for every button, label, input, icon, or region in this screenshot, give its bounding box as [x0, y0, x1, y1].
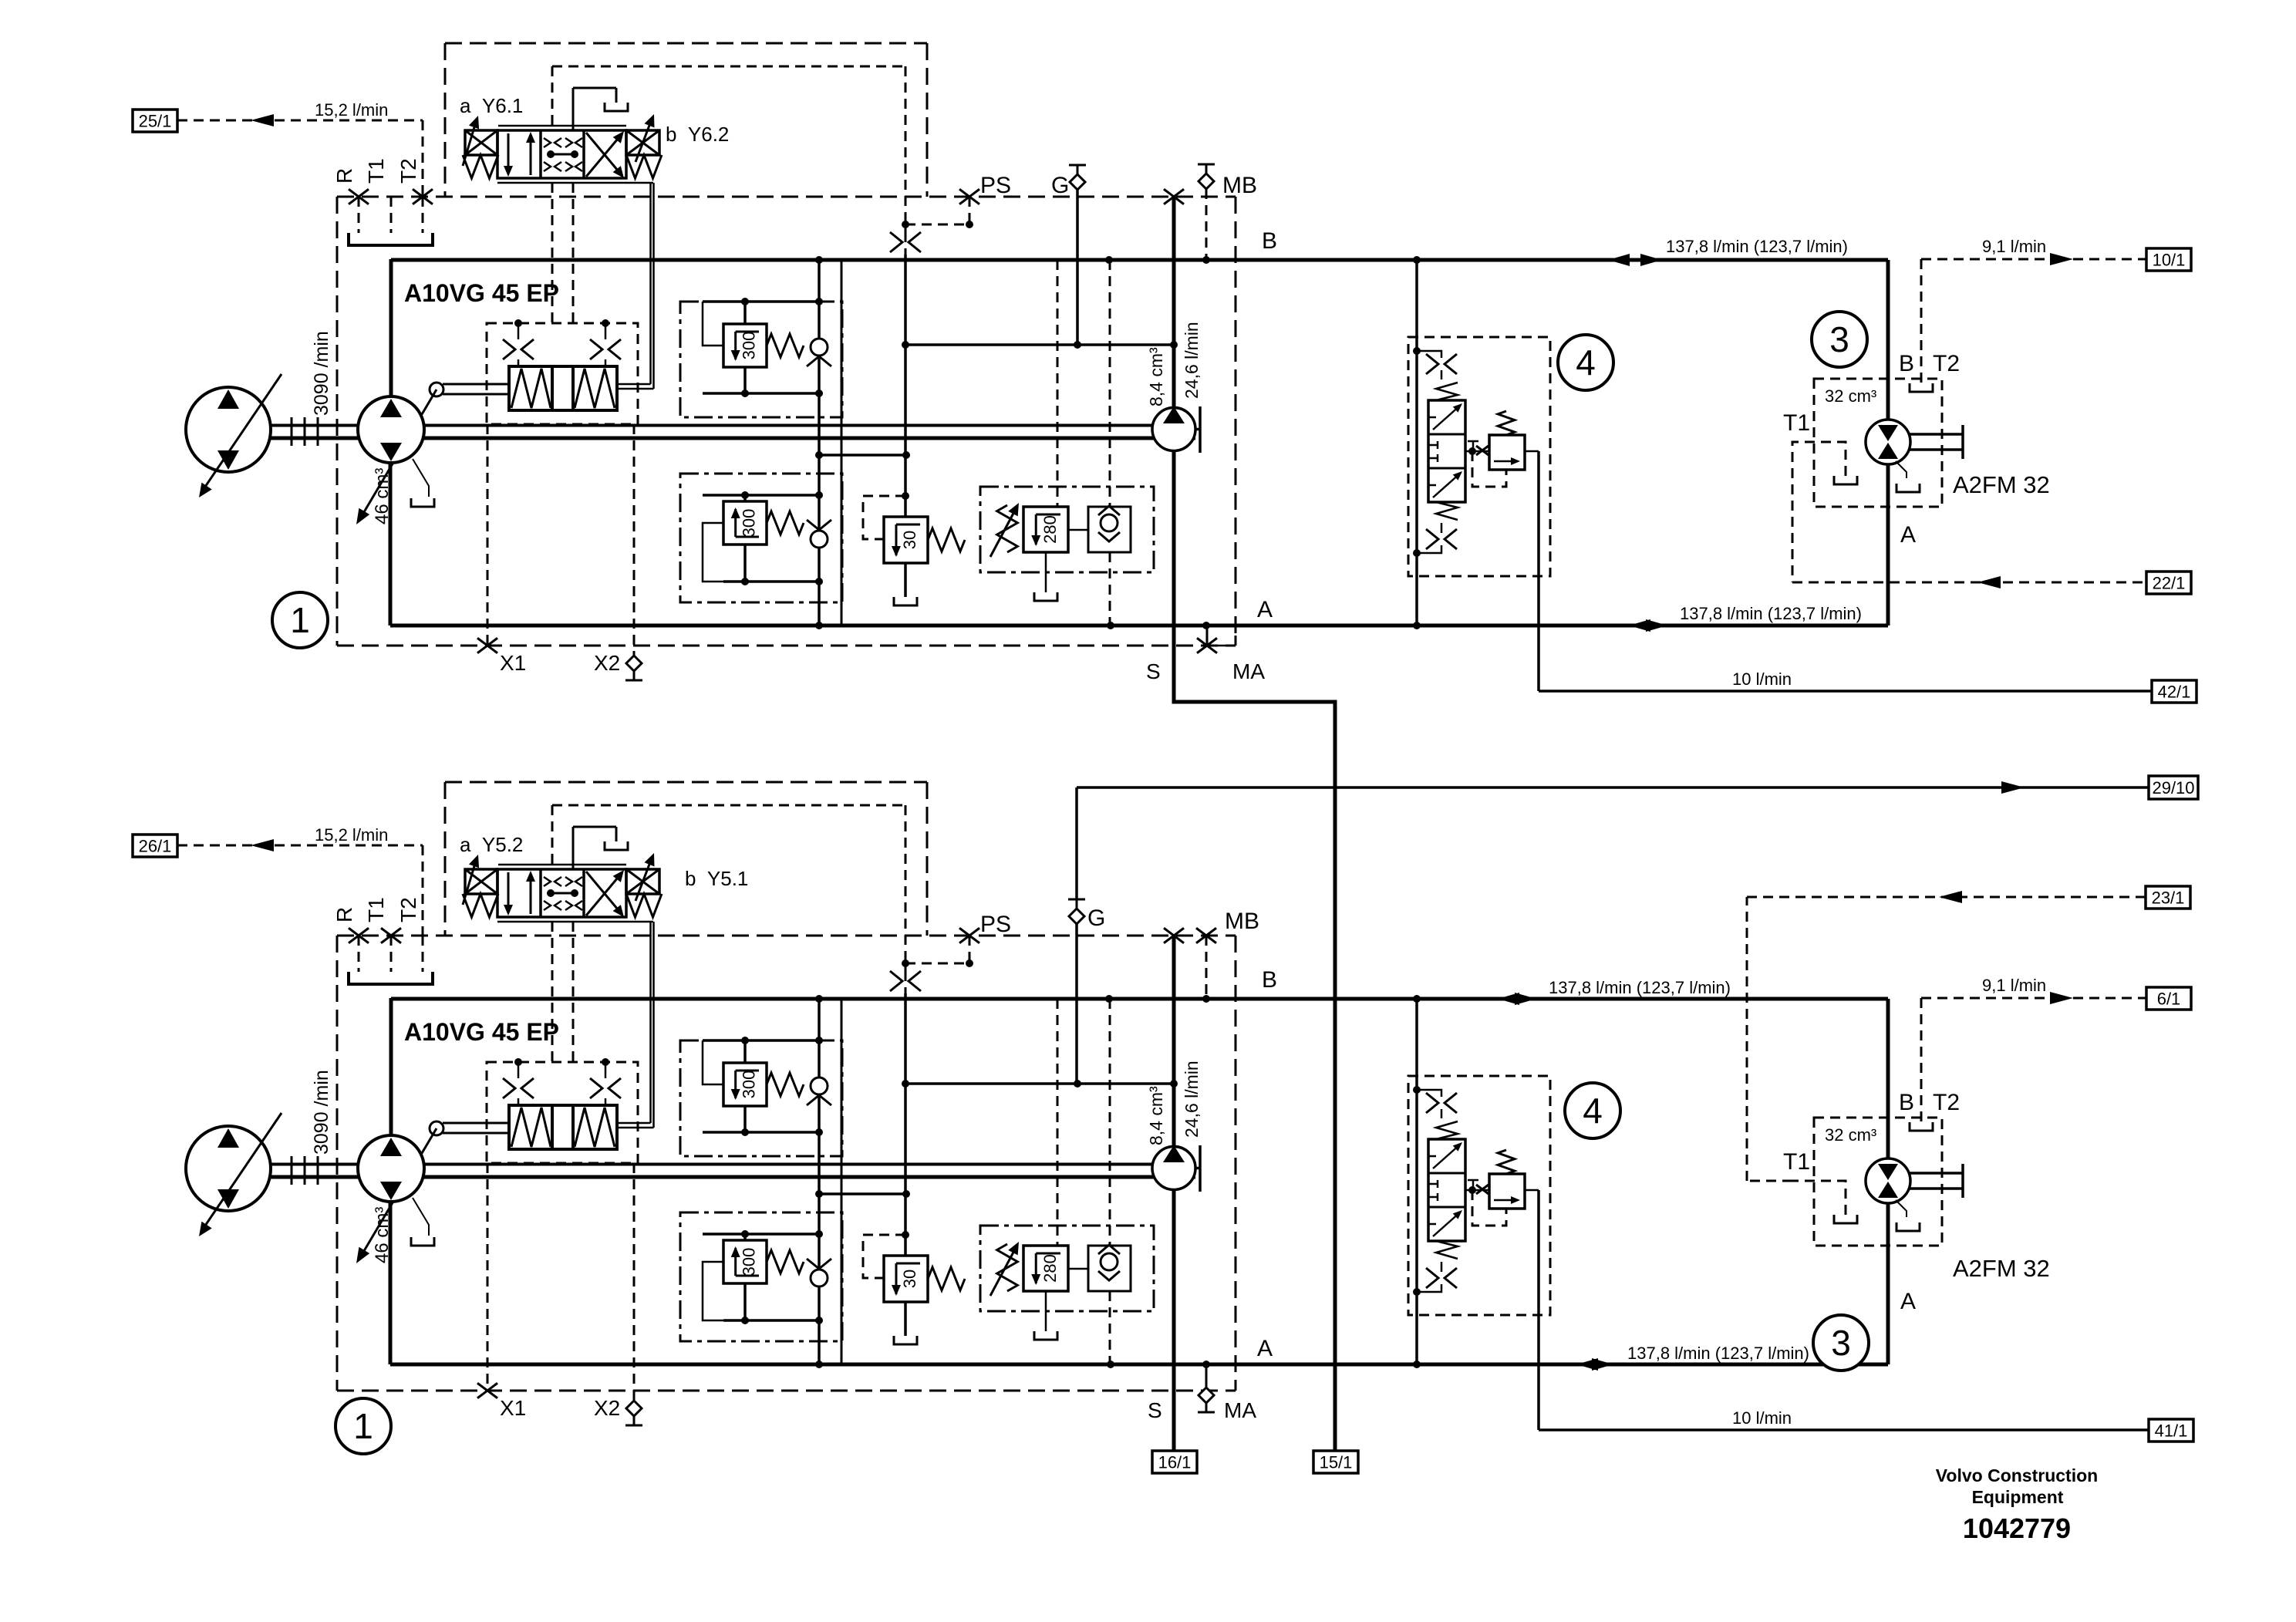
relief valve 280 [1023, 1246, 1068, 1291]
shuttle springs and orifices [1436, 1121, 1458, 1139]
valve outlet double line [649, 922, 652, 1123]
main pump port lines [389, 259, 393, 430]
svg-text:29/10: 29/10 [2152, 778, 2194, 798]
solenoid a arrow [463, 858, 477, 905]
pilot lines valve to control [551, 922, 554, 1062]
pump control pilot box [487, 323, 638, 424]
svg-text:MB: MB [1225, 909, 1259, 934]
valve body 4/3 proportional [497, 869, 626, 917]
motor triangles [1878, 425, 1898, 441]
svg-text:137,8 l/min (123,7 l/min): 137,8 l/min (123,7 l/min) [1666, 237, 1848, 256]
wire 10 l/min to 42/1 [1537, 451, 1540, 691]
B flow arrows [1608, 254, 1630, 266]
svg-text:4: 4 [1576, 342, 1596, 383]
svg-text:S: S [1146, 659, 1161, 683]
charge relief 30 pilot loop [863, 1235, 905, 1278]
svg-text:23/1: 23/1 [2152, 889, 2185, 908]
svg-text:R: R [332, 168, 356, 184]
solenoid b box [626, 130, 659, 155]
servo rod [443, 1122, 509, 1125]
port X1 [487, 1163, 489, 1391]
bottom drive circuit [133, 782, 2193, 1473]
svg-text:A: A [1257, 1336, 1273, 1361]
link 280 to check [1068, 1268, 1088, 1270]
relief pilot loop [1472, 1190, 1506, 1226]
svg-text:X2: X2 [594, 1396, 620, 1420]
svg-text:X1: X1 [500, 651, 526, 675]
shuttle out to relief [1465, 450, 1489, 453]
pump unit boundary box [337, 196, 1236, 198]
solenoid a arrow [463, 120, 477, 166]
pump control pilot box [487, 1062, 638, 1163]
motor supply vertical [1886, 260, 1890, 626]
svg-text:X1: X1 [500, 1396, 526, 1420]
motor T2 pilot to 9,1 line [1921, 997, 2064, 1000]
relief pilot loop [1472, 451, 1506, 487]
valve top rail [498, 125, 626, 127]
svg-text:b Y5.1: b Y5.1 [685, 867, 748, 890]
relief valve 300 [723, 1063, 767, 1106]
shaft coupling hatches [291, 417, 293, 446]
relief 280 adjustable spring [997, 505, 1018, 552]
circled 4 [1565, 1083, 1620, 1138]
charge pressure line [904, 993, 907, 1256]
relief valve 300 [723, 324, 767, 367]
svg-text:3090 /min: 3090 /min [311, 331, 332, 416]
line B to makeup check [1109, 260, 1111, 507]
aux charge pump line [1172, 936, 1176, 1451]
ref box 16/1 [1152, 1451, 1197, 1473]
wire B main line [391, 997, 1888, 1001]
charge supply cross line [905, 343, 1174, 346]
spool center blocked ports [544, 138, 551, 147]
relief 300 pilot loop [703, 1262, 723, 1320]
aux pump shaft cap [1195, 428, 1200, 431]
circled 1 [335, 1398, 391, 1454]
motor A2FM dashed box [1814, 379, 1942, 507]
stroking cylinder springs [511, 1108, 551, 1147]
svg-text:15,2 l/min: 15,2 l/min [315, 100, 388, 120]
stroking cylinder springs [511, 369, 551, 408]
left pump arrow [202, 374, 282, 491]
aux charge pump circle [1152, 1147, 1195, 1190]
svg-text:B: B [1262, 228, 1277, 254]
svg-text:A: A [1900, 1289, 1916, 1314]
relief out drain [1525, 1189, 1539, 1192]
top drive circuit [133, 43, 2197, 1451]
motor case drain leader [1896, 1200, 1907, 1217]
inner pilot dashed routing [552, 66, 905, 68]
svg-text:3090 /min: 3090 /min [311, 1070, 332, 1155]
circled 3 [1812, 312, 1867, 367]
check valve [811, 1077, 828, 1094]
flushing relief valve [1489, 1174, 1525, 1209]
relief 300 pilot loop [703, 523, 723, 582]
ref box 42/1 [2152, 680, 2197, 703]
svg-text:B: B [1262, 967, 1277, 993]
svg-text:a Y6.1: a Y6.1 [460, 94, 523, 117]
svg-text:26/1: 26/1 [139, 837, 172, 856]
relief 300 group box [680, 1212, 842, 1341]
charge relief 30 drain to tank [904, 563, 907, 597]
pump case drain leader [413, 1198, 429, 1236]
solenoid a spring [463, 894, 498, 917]
svg-text:Volvo Construction: Volvo Construction [1936, 1465, 2098, 1485]
svg-text:42/1: 42/1 [2158, 683, 2191, 702]
svg-text:T2: T2 [1933, 1090, 1960, 1115]
svg-text:3: 3 [1831, 1323, 1851, 1363]
valve bottom rail [497, 182, 653, 184]
svg-text:R: R [332, 907, 356, 922]
solenoid b arrow [636, 117, 652, 162]
motor T1 tank [1834, 1215, 1857, 1223]
relief 280 group box [980, 487, 1154, 572]
svg-text:T1: T1 [364, 897, 388, 922]
check valve [811, 339, 828, 356]
relief valve 300 [723, 501, 767, 545]
relief 300 group box [680, 1040, 842, 1156]
circled 3 [1813, 1315, 1869, 1371]
flushing block box [1408, 337, 1550, 576]
drive shaft [270, 1163, 1195, 1166]
ref box 29/10 [2149, 776, 2198, 799]
pilot line to 280 [1057, 260, 1059, 507]
svg-text:MA: MA [1224, 1398, 1256, 1422]
svg-text:A2FM 32: A2FM 32 [1953, 1255, 2050, 1282]
solenoid b spring [626, 155, 662, 178]
solenoid a box [465, 869, 497, 894]
left pump circle [186, 387, 271, 472]
relief 300 spring [767, 511, 804, 534]
svg-text:MB: MB [1222, 173, 1257, 198]
left pump arrow [202, 1113, 282, 1230]
relief 300 bottom bus [723, 580, 819, 583]
wire A main line [390, 1363, 1888, 1367]
flushing block main line [1415, 999, 1418, 1364]
ref box 26/1 [133, 835, 177, 857]
motor triangles [1878, 1164, 1898, 1180]
flushing shuttle valve body [1428, 400, 1465, 502]
relief 300 top bus [703, 1039, 819, 1042]
valve body 4/3 proportional [497, 130, 626, 178]
PS orifice [905, 963, 907, 971]
280 drain to tank [1045, 1291, 1047, 1331]
makeup check valve box [1088, 507, 1131, 552]
svg-text:32 cm³: 32 cm³ [1825, 1125, 1876, 1145]
svg-text:T2: T2 [396, 897, 420, 922]
svg-text:280: 280 [1040, 1254, 1060, 1283]
shuttle top cell diagonal [1433, 1144, 1461, 1168]
servo rod [443, 383, 509, 386]
svg-text:6/1: 6/1 [2157, 990, 2181, 1009]
svg-text:25/1: 25/1 [139, 112, 172, 131]
relief 300 top bus [703, 1233, 819, 1236]
spool cell arrows [507, 133, 510, 174]
motor T2 pilot to 9,1 line [1921, 258, 2064, 261]
relief 300 spring [767, 1250, 804, 1273]
relief 300 top bus [703, 300, 819, 303]
svg-text:A10VG 45 EP: A10VG 45 EP [404, 1018, 559, 1046]
bus cross link [819, 454, 906, 457]
svg-text:10 l/min: 10 l/min [1732, 669, 1792, 689]
svg-text:4: 4 [1583, 1091, 1603, 1131]
pilot orifice left [514, 319, 522, 327]
pilot orifice right [602, 319, 609, 327]
shuttle pilot connections [1413, 1086, 1421, 1094]
T1 drain to 22/1 [1792, 442, 1846, 582]
valve outlet double line [649, 183, 652, 384]
svg-text:a Y5.2: a Y5.2 [460, 833, 523, 856]
svg-text:1042779: 1042779 [1963, 1512, 2071, 1544]
wire S to 16/1 [1172, 1364, 1176, 1451]
makeup check valve box [1088, 1246, 1131, 1291]
svg-text:X2: X2 [594, 651, 620, 675]
svg-text:15,2 l/min: 15,2 l/min [315, 825, 388, 845]
svg-text:137,8 l/min (123,7 l/min): 137,8 l/min (123,7 l/min) [1680, 604, 1862, 623]
aux charge pump line [1172, 197, 1176, 702]
motor supply vertical [1886, 999, 1890, 1364]
ref box 10/1 [2146, 248, 2191, 271]
swashplate arrow [359, 389, 437, 520]
motor shaft [1909, 1172, 1963, 1175]
ref box 22/1 [2146, 572, 2191, 594]
svg-text:MA: MA [1232, 659, 1265, 683]
relief 300 bottom bus [723, 1319, 819, 1322]
pump block right edge [841, 999, 843, 1364]
svg-text:b Y6.2: b Y6.2 [666, 123, 729, 146]
R T1 T2 drain stubs [358, 197, 360, 233]
svg-text:T1: T1 [364, 158, 388, 184]
280 drain to tank [1045, 552, 1047, 592]
svg-text:137,8 l/min (123,7 l/min): 137,8 l/min (123,7 l/min) [1549, 978, 1731, 997]
relief 300 connections [743, 1040, 747, 1063]
check valve [811, 1270, 828, 1286]
svg-text:30: 30 [900, 1270, 919, 1288]
svg-text:41/1: 41/1 [2155, 1421, 2188, 1441]
svg-text:300: 300 [739, 332, 758, 360]
solenoid a box [465, 130, 497, 155]
solenoid b spring [626, 894, 662, 917]
svg-text:A10VG 45 EP: A10VG 45 EP [404, 279, 559, 307]
svg-text:300: 300 [739, 509, 758, 538]
charge relief 30 spring [928, 528, 965, 551]
drive shaft [270, 424, 1195, 427]
shuttle bottom cell diagonal [1433, 1212, 1461, 1236]
charge relief 30 pilot dot [902, 492, 909, 500]
B flow arrows [1498, 993, 1519, 1005]
shuttle mid cell ports [1428, 1183, 1438, 1185]
flushing shuttle valve body [1428, 1139, 1465, 1241]
relief 300 group box [680, 474, 842, 602]
outer pilot dashed routing [444, 43, 447, 197]
circled 1 [272, 592, 328, 648]
shuttle pilot connections [1413, 347, 1421, 355]
svg-text:300: 300 [739, 1248, 758, 1276]
svg-text:300: 300 [739, 1071, 758, 1099]
stroking cylinder body [509, 1105, 617, 1149]
valve pilot drain hook to tank [572, 827, 575, 869]
motor shaft [1909, 433, 1963, 436]
svg-text:30: 30 [900, 531, 919, 549]
relief 280 group box [980, 1226, 1154, 1311]
spool cross arrows [586, 873, 622, 916]
motor A2FM dashed box [1814, 1118, 1942, 1246]
relief out drain [1525, 450, 1539, 453]
shuttle mid cell ports [1428, 444, 1438, 447]
outer pilot dashed routing [444, 782, 447, 936]
svg-text:280: 280 [1040, 515, 1060, 544]
internal bus line [818, 999, 821, 1364]
port X1 [487, 424, 489, 646]
charge relief valve 30 [884, 1256, 928, 1302]
port X2 [633, 424, 636, 656]
wire 15,2 l/min drain [177, 120, 423, 122]
svg-text:PS: PS [980, 912, 1011, 937]
relief 300 spring [767, 1073, 804, 1096]
svg-text:B: B [1899, 1090, 1914, 1115]
wire A main line [390, 624, 1888, 628]
pump case drain leader [413, 459, 429, 497]
svg-text:3: 3 [1829, 319, 1849, 359]
inner pilot dashed routing [552, 804, 905, 807]
pilot line to 280 [1057, 999, 1059, 1246]
aux charge pump circle [1152, 408, 1195, 451]
link 280 to check [1068, 529, 1088, 531]
svg-text:1: 1 [290, 600, 310, 640]
svg-text:A: A [1900, 522, 1916, 548]
drain collector bracket [349, 972, 433, 984]
svg-text:G: G [1087, 905, 1105, 931]
svg-text:9,1 l/min: 9,1 l/min [1982, 976, 2046, 995]
svg-text:8,4 cm³: 8,4 cm³ [1146, 1086, 1166, 1145]
motor T2 drain line [1920, 998, 1923, 1122]
pilot orifice right [602, 1058, 609, 1066]
relief 300 pilot loop [703, 302, 723, 346]
ref box 6/1 [2146, 987, 2191, 1010]
svg-text:24,6 l/min: 24,6 l/min [1182, 1061, 1202, 1138]
stroking cylinder body [509, 366, 617, 410]
svg-text:S: S [1148, 1398, 1162, 1422]
svg-text:15/1: 15/1 [1320, 1453, 1353, 1472]
relief 300 spring [767, 334, 804, 357]
ref box 23/1 [2146, 886, 2190, 909]
svg-text:24,6 l/min: 24,6 l/min [1182, 322, 1202, 399]
charge pressure line [904, 255, 907, 517]
main pump port lines [389, 998, 393, 1168]
charge relief 30 pilot dot [902, 1231, 909, 1239]
ref box 25/1 [133, 110, 177, 132]
charge relief valve 30 [884, 517, 928, 563]
relief 300 bottom bus [703, 392, 819, 395]
flushing block box [1408, 1076, 1550, 1315]
relief 300 bottom bus [703, 1131, 819, 1134]
pump block right edge [841, 260, 843, 626]
relief 280 adjustable spring [997, 1244, 1018, 1291]
svg-text:T2: T2 [1933, 351, 1960, 376]
svg-text:9,1 l/min: 9,1 l/min [1982, 237, 2046, 256]
motor case drain leader [1896, 461, 1907, 478]
internal bus line [818, 260, 821, 626]
relief 300 connections [743, 1234, 747, 1240]
pump unit boundary box [337, 935, 1236, 937]
T1 drain to 23/1 [1792, 1181, 1846, 1215]
wire 15,2 l/min drain [177, 845, 423, 847]
check valve [811, 531, 828, 548]
svg-text:22/1: 22/1 [2153, 574, 2186, 593]
svg-text:1: 1 [353, 1406, 373, 1446]
svg-text:T2: T2 [396, 158, 420, 184]
wire B main line [391, 258, 1888, 262]
pilot orifice left [514, 1058, 522, 1066]
relief 300 connections [743, 302, 747, 324]
flushing block main line [1415, 260, 1418, 626]
svg-text:A2FM 32: A2FM 32 [1953, 471, 2050, 498]
wire S drain to 15/1 [1174, 626, 1335, 1451]
shuttle out to relief [1465, 1189, 1489, 1192]
bus cross link [819, 1192, 906, 1195]
svg-text:G: G [1051, 173, 1069, 198]
drain collector bracket [349, 233, 433, 245]
relief 300 group box [680, 302, 842, 417]
shaft coupling hatches [291, 1156, 293, 1185]
wire 29/10 gauge line [1077, 786, 2149, 789]
left pump circle [186, 1126, 271, 1211]
ref box 41/1 [2149, 1419, 2193, 1442]
relief 300 pilot loop [703, 1040, 723, 1084]
svg-text:PS: PS [980, 173, 1011, 198]
aux pump shaft cap [1195, 1167, 1200, 1170]
main pump circle [358, 396, 424, 463]
flushing relief valve [1489, 435, 1525, 470]
relief 300 connections [743, 495, 747, 501]
PS orifice [905, 224, 907, 232]
shuttle top cell diagonal [1433, 405, 1461, 430]
motor circle [1866, 420, 1910, 464]
svg-text:137,8 l/min (123,7 l/min): 137,8 l/min (123,7 l/min) [1627, 1344, 1809, 1363]
charge supply cross line [905, 1082, 1174, 1085]
shuttle springs and orifices [1436, 383, 1458, 400]
valve pilot drain hook to tank [572, 88, 575, 130]
charge relief 30 pilot loop [863, 496, 905, 539]
relief 300 top bus [703, 494, 819, 497]
svg-text:Equipment: Equipment [1972, 1487, 2064, 1507]
svg-text:A: A [1257, 597, 1273, 622]
circled 4 [1558, 335, 1613, 390]
svg-text:T1: T1 [1783, 1149, 1810, 1175]
solenoid b arrow [636, 856, 652, 901]
charge relief 30 drain to tank [904, 1302, 907, 1336]
solenoid b box [626, 869, 659, 894]
motor circle [1866, 1158, 1910, 1203]
svg-text:16/1: 16/1 [1158, 1453, 1192, 1472]
line B to makeup check [1109, 999, 1111, 1246]
valve bottom rail [497, 921, 653, 923]
R T1 T2 drain stubs [358, 936, 360, 972]
solenoid a spring [463, 155, 498, 178]
svg-text:10 l/min: 10 l/min [1732, 1408, 1792, 1428]
spool cross arrows [586, 134, 622, 177]
spool cell arrows [507, 872, 510, 912]
motor T2 drain line [1920, 259, 1923, 383]
svg-text:32 cm³: 32 cm³ [1825, 386, 1876, 406]
wire 10 l/min to 41/1 [1537, 1190, 1540, 1430]
shuttle bottom cell diagonal [1433, 473, 1461, 497]
pilot lines valve to control [551, 183, 554, 323]
swashplate arrow [359, 1128, 437, 1259]
motor T1 tank [1834, 476, 1857, 484]
main pump circle [358, 1135, 424, 1202]
svg-text:B: B [1899, 351, 1914, 376]
